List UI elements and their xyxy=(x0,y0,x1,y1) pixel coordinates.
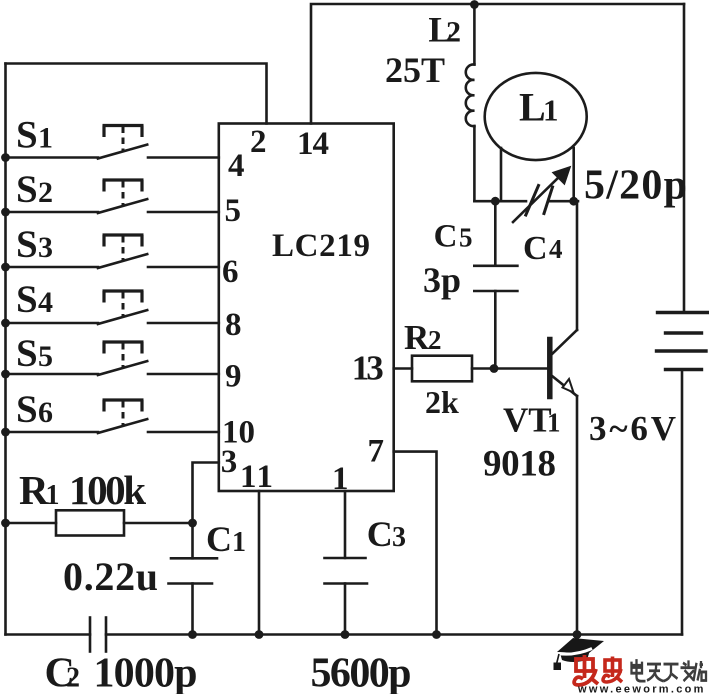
resistor R1 xyxy=(6,510,193,535)
svg-text:1: 1 xyxy=(38,122,53,155)
capacitor C3 with pin 1 wire xyxy=(325,491,368,635)
svg-text:S: S xyxy=(16,388,38,431)
svg-text:6: 6 xyxy=(222,254,239,290)
svg-text:6: 6 xyxy=(38,396,53,429)
resistor R2 xyxy=(412,356,472,382)
node R1/C1/pin3 junction xyxy=(188,519,197,528)
wire pin 13 to R2 xyxy=(394,367,412,370)
svg-text:L: L xyxy=(519,85,546,130)
capacitor C5 xyxy=(474,201,517,368)
watermark red character chong 2 xyxy=(603,657,622,683)
node C3 ground xyxy=(341,630,350,639)
svg-text:2: 2 xyxy=(66,663,80,694)
svg-text:25T: 25T xyxy=(385,50,445,90)
svg-text:14: 14 xyxy=(297,126,329,162)
transistor VT1 9018 xyxy=(550,201,577,634)
wire battery negative to bottom rail xyxy=(681,370,684,635)
svg-text:5: 5 xyxy=(459,222,473,252)
node base/C5 xyxy=(490,364,499,373)
label S1 xyxy=(16,114,53,157)
svg-text:3: 3 xyxy=(38,231,53,264)
node pin7 ground xyxy=(432,630,441,639)
node pin11 ground xyxy=(255,630,264,639)
wire top-left horizontal to pin 2 xyxy=(6,64,267,124)
watermark red character chong 1 xyxy=(574,655,598,685)
wire bottom ground rail left of C2 xyxy=(6,633,91,636)
label R1 xyxy=(19,467,60,513)
svg-text:S: S xyxy=(16,114,38,157)
wire pin 11 xyxy=(258,491,261,635)
svg-text:C: C xyxy=(367,514,393,554)
svg-text:0.22u: 0.22u xyxy=(63,554,158,599)
svg-text:2: 2 xyxy=(428,325,442,355)
svg-text:5/20p: 5/20p xyxy=(584,163,687,209)
svg-text:www.eeworm.com: www.eeworm.com xyxy=(577,684,706,694)
node tank left xyxy=(491,197,500,206)
wire pin 3 to R1 junction xyxy=(193,463,219,524)
node S5 left xyxy=(1,370,10,379)
node S3 left xyxy=(1,263,10,272)
svg-text:4: 4 xyxy=(228,148,245,184)
svg-text:8: 8 xyxy=(225,307,242,343)
switch S6 xyxy=(6,400,219,433)
label S3 xyxy=(16,223,53,266)
node S2 left xyxy=(1,208,10,217)
node C1 ground xyxy=(188,630,197,639)
label C2 xyxy=(45,651,81,694)
svg-text:3: 3 xyxy=(221,444,238,480)
svg-text:1: 1 xyxy=(332,461,349,497)
wire right rail to battery xyxy=(683,4,686,313)
svg-text:S: S xyxy=(16,332,38,375)
svg-text:C: C xyxy=(206,519,232,559)
switch S2 xyxy=(6,180,219,213)
inductor L2 25T xyxy=(466,4,475,201)
svg-text:1: 1 xyxy=(547,408,561,438)
svg-text:1000p: 1000p xyxy=(94,651,198,694)
svg-text:LC219: LC219 xyxy=(272,228,370,264)
switch S1 xyxy=(6,126,219,159)
label S6 xyxy=(16,388,53,431)
antenna coil L1 xyxy=(485,73,587,201)
label VT1 xyxy=(503,401,561,440)
watermark text dianzi xiazaizhan xyxy=(631,659,707,681)
label S5 xyxy=(16,332,53,375)
svg-text:VT: VT xyxy=(503,401,552,440)
svg-text:R: R xyxy=(404,318,430,357)
switch S4 xyxy=(6,291,219,324)
label L2 xyxy=(428,10,461,50)
svg-text:R: R xyxy=(19,467,49,513)
switch S5 xyxy=(6,342,219,375)
svg-text:2: 2 xyxy=(250,124,267,160)
svg-text:100k: 100k xyxy=(69,467,146,513)
wire pin 14 riser and top rail xyxy=(311,4,684,124)
wire R2 to base xyxy=(472,367,548,370)
node tank right xyxy=(569,197,578,206)
watermark graduation cap logo xyxy=(554,638,605,670)
svg-text:3p: 3p xyxy=(423,260,461,300)
wire tank top node xyxy=(474,200,526,203)
IC U1 LC219 body xyxy=(219,124,394,492)
svg-text:2: 2 xyxy=(38,176,53,209)
svg-text:2: 2 xyxy=(446,16,461,49)
wire bottom ground rail right of C2 xyxy=(106,633,682,636)
node R1 left xyxy=(1,519,10,528)
svg-text:S: S xyxy=(16,278,38,321)
svg-text:4: 4 xyxy=(38,286,53,319)
node L2 top xyxy=(470,0,479,9)
svg-text:9018: 9018 xyxy=(483,444,556,485)
battery B1 3~6V xyxy=(657,313,709,370)
label R2 xyxy=(404,318,442,357)
variable capacitor C4 xyxy=(513,167,571,223)
wire left rail xyxy=(4,64,7,635)
svg-text:C: C xyxy=(523,230,548,267)
capacitor C1 xyxy=(169,523,218,635)
svg-text:S: S xyxy=(16,223,38,266)
node emitter ground xyxy=(573,630,582,639)
wire pin 7 xyxy=(394,452,437,635)
svg-text:3: 3 xyxy=(392,522,406,553)
svg-text:1: 1 xyxy=(232,527,246,558)
node S4 left xyxy=(1,319,10,328)
label C5 xyxy=(434,218,473,254)
svg-text:9: 9 xyxy=(225,359,242,395)
label C1 xyxy=(206,519,246,559)
svg-text:11: 11 xyxy=(240,459,273,495)
label C3 xyxy=(367,514,406,554)
svg-text:1: 1 xyxy=(543,93,559,128)
svg-text:7: 7 xyxy=(368,434,385,470)
svg-text:C: C xyxy=(434,218,458,254)
svg-text:1: 1 xyxy=(46,480,60,511)
wire tank right segment xyxy=(549,200,578,203)
node S1 left xyxy=(1,153,10,162)
svg-text:5: 5 xyxy=(38,340,53,373)
label L1 xyxy=(519,85,559,130)
svg-text:2k: 2k xyxy=(425,384,459,420)
svg-text:5600p: 5600p xyxy=(311,651,412,694)
svg-text:13: 13 xyxy=(352,348,384,387)
label S2 xyxy=(16,168,53,211)
svg-text:3~6V: 3~6V xyxy=(589,409,676,448)
label S4 xyxy=(16,278,53,321)
svg-text:S: S xyxy=(16,168,38,211)
switch S3 xyxy=(6,235,219,268)
capacitor C2 xyxy=(90,618,106,652)
svg-text:5: 5 xyxy=(225,193,242,229)
node S6 left xyxy=(1,428,10,437)
svg-text:4: 4 xyxy=(549,234,563,264)
label C4 xyxy=(523,230,563,267)
